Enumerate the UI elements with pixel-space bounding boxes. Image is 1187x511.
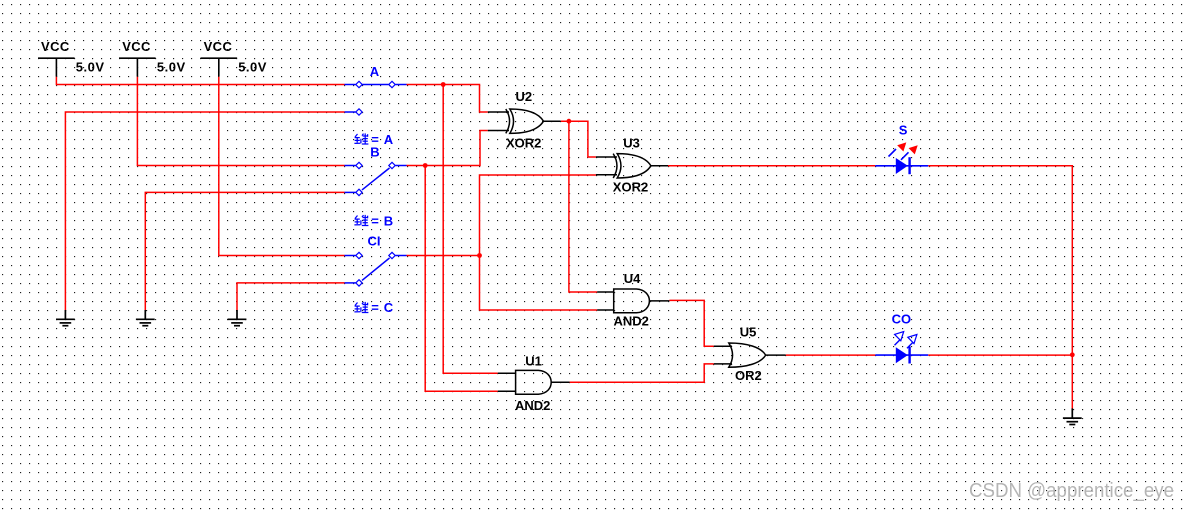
svg-text:VCC: VCC — [122, 39, 151, 54]
switch J2 key B — [345, 162, 407, 195]
svg-text:OR2: OR2 — [735, 368, 762, 383]
wire VCC3 to switch CI top throw — [219, 77, 345, 256]
ground GND3 — [228, 310, 247, 326]
VCC V2 — [119, 58, 156, 76]
wire VCC1 to switch A top throw — [56, 77, 344, 85]
junction U2 output node — [567, 119, 572, 124]
svg-text:C: C — [384, 300, 394, 315]
ground GND2 — [136, 310, 155, 326]
svg-text:A: A — [384, 132, 394, 147]
svg-text:=: = — [371, 132, 379, 147]
wire node CI up to U3 input 2 — [480, 175, 596, 256]
svg-text:5.0V: 5.0V — [76, 60, 105, 75]
switch J1 key A — [345, 81, 407, 115]
svg-text:XOR2: XOR2 — [506, 135, 541, 150]
svg-text:XOR2: XOR2 — [613, 180, 648, 195]
svg-text:CO: CO — [892, 311, 912, 326]
svg-text:AND2: AND2 — [614, 314, 649, 329]
switch J3 key legend — [354, 302, 368, 313]
op OR gate U5 — [714, 343, 786, 367]
wire U1 output to U5 input 2 — [570, 364, 714, 382]
svg-text:U2: U2 — [516, 89, 533, 104]
junction node CI — [477, 253, 482, 258]
svg-text:U1: U1 — [525, 353, 542, 368]
wire U5 output to LED CO — [786, 354, 876, 356]
switch J3 key CI — [345, 252, 407, 286]
wire U4 output to U5 input 1 — [669, 300, 713, 346]
op AND gate U4 — [597, 289, 669, 313]
svg-text:CI: CI — [368, 233, 381, 248]
svg-text:B: B — [384, 214, 393, 229]
svg-text:5.0V: 5.0V — [238, 60, 267, 75]
wire right bus down to ground GND4 — [1071, 355, 1073, 409]
wire U2 output to U3 input 1 — [561, 121, 596, 157]
junction right bus — [1070, 352, 1075, 357]
VCC V3 — [201, 58, 238, 76]
svg-text:U3: U3 — [623, 135, 640, 150]
ground GND1 — [56, 310, 75, 326]
svg-text:CSDN @apprentice_eye: CSDN @apprentice_eye — [969, 480, 1174, 502]
wire U3 output to LED S — [668, 165, 875, 167]
svg-text:VCC: VCC — [204, 39, 233, 54]
wire switch A pole to U2 input 1 — [407, 85, 488, 113]
svg-text:=: = — [371, 300, 379, 315]
wire ground1 to switch A bottom throw — [65, 112, 344, 310]
wire U2 output branch down to U4 input 1 — [569, 121, 597, 292]
wire node A branch down to U1 input 1 — [443, 85, 498, 374]
svg-text:AND2: AND2 — [515, 398, 550, 413]
op XOR gate U3 — [596, 154, 668, 178]
op XOR gate U2 — [488, 109, 561, 133]
junction node B — [423, 163, 428, 168]
svg-text:5.0V: 5.0V — [157, 60, 186, 75]
LED CO (off) — [875, 332, 928, 364]
VCC V1 — [38, 58, 75, 76]
LED S (lit) — [875, 142, 928, 174]
wire ground2 to switch B bottom throw — [145, 192, 344, 310]
wire node CI down to U4 input 2 — [480, 256, 598, 311]
switch J2 key legend — [354, 215, 368, 226]
svg-text:U4: U4 — [624, 271, 641, 286]
svg-text:A: A — [370, 64, 380, 79]
svg-text:VCC: VCC — [41, 39, 70, 54]
op AND gate U1 — [498, 370, 570, 394]
wire switch CI pole to node CI — [407, 255, 480, 257]
junction node A — [441, 82, 446, 87]
svg-text:U5: U5 — [740, 324, 757, 339]
svg-text:S: S — [899, 123, 908, 138]
wire ground3 to switch CI bottom throw — [237, 283, 345, 311]
wire LED CO to right bus junction — [928, 354, 1072, 356]
switch J1 key legend — [354, 133, 368, 144]
wire LED S to right bus — [928, 166, 1072, 355]
wire VCC2 to switch B top throw — [137, 77, 344, 166]
ground GND4 — [1063, 408, 1082, 424]
wire switch B pole to U2 input 2 — [407, 131, 488, 166]
svg-text:=: = — [371, 214, 379, 229]
wire node B branch down to U1 input 2 — [425, 166, 498, 392]
